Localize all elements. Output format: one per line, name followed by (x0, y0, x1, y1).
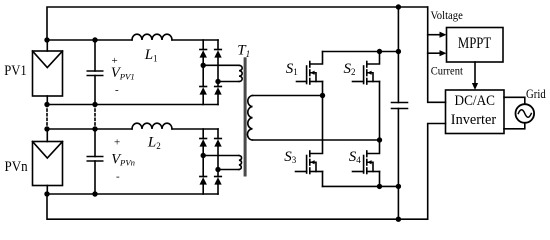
transistor S3 (296, 96, 323, 187)
diode branch B row2 (x=218) (214, 129, 221, 194)
dotted link PV string (46, 105, 48, 130)
diode D5 (200, 138, 207, 140)
capacitor C1 (VPV1) (87, 40, 102, 105)
diode D7 (200, 176, 207, 178)
diode D2 (215, 49, 222, 51)
capacitor dc link (392, 103, 408, 109)
svg-text:-: - (115, 84, 119, 96)
label VPVn (111, 137, 135, 183)
node bus top-rail junction (396, 49, 401, 54)
node row1 branchB mid (215, 79, 220, 84)
node PV1 bottom junction (44, 102, 49, 107)
wire row1 top rail (47, 39, 218, 41)
node C2 top junction (92, 126, 97, 131)
node bus bottom junction (396, 217, 401, 222)
svg-text:Inverter: Inverter (451, 112, 496, 128)
svg-text:S1: S1 (286, 61, 298, 77)
wire row2 top rail (47, 128, 218, 130)
transistor S4 (353, 140, 380, 186)
block MPPT (447, 28, 504, 63)
arrow current sense (428, 50, 447, 56)
wire dc bus lower (397, 109, 399, 220)
sine wave (518, 110, 531, 118)
diode D1 (200, 49, 207, 51)
svg-text:Voltage: Voltage (431, 10, 463, 22)
wire bridge bottom rail (323, 185, 399, 187)
node bridge leg B midpoint (377, 137, 382, 142)
node S2 drain junction (377, 49, 382, 54)
svg-text:+: + (114, 137, 120, 149)
wire row2 bottom rail (47, 193, 218, 195)
wire sense drop to inverter (428, 7, 446, 102)
svg-text:Grid: Grid (526, 87, 546, 101)
svg-text:S2: S2 (344, 61, 356, 77)
wire inverter to grid bottom (504, 123, 525, 129)
diode branch A row1 (x=203.2) (200, 40, 207, 105)
node bus bottom-rail junction (396, 184, 401, 189)
diode D3 (200, 86, 207, 88)
svg-text:L2: L2 (147, 134, 161, 150)
svg-text:VPV1: VPV1 (111, 65, 135, 81)
node PV1 top junction (44, 37, 49, 42)
transistor S2 (353, 52, 380, 141)
node PVn bottom junction (44, 191, 49, 196)
wire row2 primary leads (203, 156, 239, 170)
diode branch A row2 (x=203.2) (200, 129, 207, 194)
wire bottom return (47, 124, 446, 220)
svg-text:Current: Current (431, 64, 464, 78)
wire secondary bottom lead (253, 139, 380, 141)
diode branch B row1 (x=218) (214, 40, 221, 105)
dotted link cap string (94, 105, 96, 130)
node C2 bottom junction (92, 191, 97, 196)
arrow voltage sense (428, 32, 447, 38)
wire secondary top lead (253, 95, 323, 97)
wire row1 primary leads (203, 65, 239, 81)
wire bridge top rail (323, 51, 399, 53)
node PVn top junction (44, 126, 49, 131)
svg-text:S4: S4 (349, 149, 362, 165)
svg-text:MPPT: MPPT (458, 35, 492, 52)
node C1 bottom junction (92, 102, 97, 107)
transformer core T1 (244, 57, 247, 176)
wire dc bus upper (397, 7, 399, 103)
svg-text:S3: S3 (284, 149, 297, 165)
node bus top junction (396, 4, 401, 9)
diode D6 (215, 138, 222, 140)
svg-text:-: - (116, 171, 120, 183)
label DC/AC Inverter (451, 93, 496, 128)
node bridge leg A midpoint (320, 93, 325, 98)
block DC/AC inverter (446, 90, 505, 134)
diode D8 (215, 176, 222, 178)
node C1 top junction (92, 37, 97, 42)
inductor L1 (132, 34, 172, 40)
svg-text:PVn: PVn (5, 159, 29, 175)
node S4 source junction (377, 184, 382, 189)
wire row1 bottom rail (47, 104, 218, 106)
svg-text:VPVn: VPVn (111, 151, 135, 167)
arrow MPPT to inverter (472, 62, 478, 90)
wire inverter to grid top (504, 97, 525, 104)
transformer secondary winding (247, 96, 252, 141)
svg-text:PV1: PV1 (4, 62, 27, 79)
svg-text:DC/AC: DC/AC (455, 93, 496, 109)
wire top bus (47, 7, 428, 40)
PVn module (33, 129, 63, 194)
node row2 branchA mid (201, 153, 206, 158)
transistor S1 (297, 52, 323, 96)
ac source grid circle (516, 104, 535, 123)
diode D4 (215, 86, 222, 88)
inductor L2 (132, 123, 172, 129)
capacitor C2 (VPVn) (87, 129, 102, 194)
node row2 branchB mid (215, 167, 220, 172)
node row1 branchA mid (201, 63, 206, 68)
svg-text:L1: L1 (144, 47, 158, 63)
label VPV1 (111, 55, 135, 96)
svg-text:T1: T1 (237, 43, 250, 59)
PV1 module (33, 40, 63, 105)
transformer primary winding 1 (239, 65, 242, 81)
transformer primary winding 2 (239, 156, 242, 170)
